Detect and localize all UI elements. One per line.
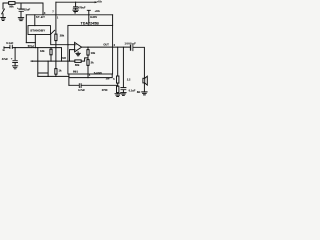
- wire feedback bus: [69, 74, 112, 85]
- top supply rail: [56, 1, 96, 3]
- wire +Ub vertical x56: [55, 2, 57, 76]
- input terminal In: [3, 47, 5, 49]
- ground under switch: [1, 18, 6, 21]
- capacitor C6 1000uF: [130, 45, 131, 51]
- ground under C2: [73, 10, 78, 13]
- ground under speaker: [142, 92, 147, 95]
- svg-text:IN(-): IN(-): [73, 70, 78, 74]
- resistor R6 10k internal: [87, 47, 89, 50]
- input wire: [4, 48, 62, 62]
- resistor R5 56k internal: [75, 60, 81, 63]
- svg-text:0.1uF: 0.1uF: [129, 89, 136, 93]
- wire standby box bottom to input wire: [34, 35, 36, 48]
- capacitor C2 470uF: [75, 2, 77, 6]
- svg-text:10k: 10k: [91, 51, 96, 55]
- standby control box: [28, 26, 51, 35]
- switch blade standby: [51, 30, 54, 33]
- wire rail right end into IC corner: [112, 15, 114, 26]
- wire rail left end down to 5V node: [26, 15, 35, 43]
- svg-text:56k: 56k: [75, 63, 80, 67]
- resistor R2 20k: [55, 34, 57, 41]
- svg-text:0.1uF: 0.1uF: [6, 41, 13, 45]
- svg-text:470uF: 470uF: [78, 5, 86, 9]
- resistor R4 18k: [50, 48, 52, 62]
- svg-text:8-24V: 8-24V: [90, 15, 97, 19]
- svg-text:2700: 2700: [102, 89, 108, 92]
- capacitor C7 0.1uF zobel: [123, 47, 124, 48]
- op-amp U1: [75, 42, 82, 51]
- svg-text:2.2: 2.2: [127, 79, 131, 82]
- svg-text:56k: 56k: [9, 4, 14, 8]
- node wire y61 with arrow end: [31, 58, 88, 61]
- svg-text:4.7uF: 4.7uF: [78, 88, 85, 92]
- ground under C4: [13, 66, 18, 69]
- resistor R9: [117, 83, 119, 86]
- svg-text:1: 1: [57, 18, 59, 20]
- resistor R1 56k: [9, 2, 15, 5]
- wire top-left from switch to node: [3, 3, 43, 15]
- resistor R8 power: [117, 47, 118, 48]
- svg-text:SVR: SVR: [61, 57, 66, 60]
- wire op-amp output: [82, 46, 131, 48]
- ground under C7: [121, 93, 126, 96]
- svg-text:2W: 2W: [106, 77, 110, 80]
- svg-text:5: 5: [113, 79, 115, 81]
- speaker LS1: [143, 78, 145, 83]
- node standby rail: [26, 14, 112, 16]
- svg-text:+Ub: +Ub: [95, 9, 101, 13]
- capacitor C1 22uF: [20, 3, 22, 9]
- capacitor C5 4.7uF: [69, 84, 118, 86]
- IC box TDA7245B: [68, 25, 113, 74]
- svg-text:-: -: [75, 47, 76, 51]
- svg-text:18k: 18k: [40, 49, 45, 53]
- ground under C1: [18, 18, 23, 21]
- svg-text:TDA7245B: TDA7245B: [81, 21, 100, 25]
- ground under op-amp: [76, 52, 80, 56]
- svg-text:STANDBY: STANDBY: [30, 29, 46, 33]
- svg-text:20k: 20k: [60, 34, 65, 38]
- wire drop x38: [37, 48, 39, 77]
- svg-text:47uF: 47uF: [2, 57, 9, 61]
- svg-text:8Ω: 8Ω: [137, 91, 140, 94]
- svg-text:+Ub: +Ub: [97, 0, 103, 3]
- svg-text:OUT: OUT: [103, 43, 109, 47]
- wire box to op-amp plus input: [51, 35, 75, 45]
- arrow +Ub: [95, 1, 98, 3]
- svg-text:In: In: [3, 48, 6, 52]
- wire op-amp minus input: [70, 50, 75, 62]
- switch S1: [2, 4, 5, 18]
- svg-text:S-GND: S-GND: [94, 72, 102, 75]
- svg-text:1k: 1k: [59, 69, 62, 73]
- wire S-GND pin: [87, 65, 89, 77]
- wire standby box top feed: [34, 15, 36, 26]
- svg-text:5V(+): 5V(+): [28, 45, 34, 48]
- svg-text:2k: 2k: [91, 60, 94, 64]
- svg-text:2: 2: [114, 43, 116, 47]
- svg-text:7: 7: [52, 12, 54, 14]
- svg-text:+: +: [11, 57, 13, 60]
- svg-text:4: 4: [89, 74, 91, 77]
- resistor R7 2k internal: [87, 55, 89, 60]
- ground under R9: [115, 94, 120, 97]
- svg-text:ST-BY: ST-BY: [36, 15, 45, 19]
- capacitor C4 47uF: [14, 48, 16, 61]
- wire ground bus left: [38, 75, 69, 77]
- svg-text:1000uF: 1000uF: [125, 41, 137, 45]
- component box lower-left: [38, 61, 48, 76]
- svg-text:22uF: 22uF: [24, 7, 31, 11]
- supply terminal node: [87, 10, 90, 25]
- resistor R3 1k: [55, 69, 57, 75]
- capacitor C3 0.1uF: [10, 45, 12, 48]
